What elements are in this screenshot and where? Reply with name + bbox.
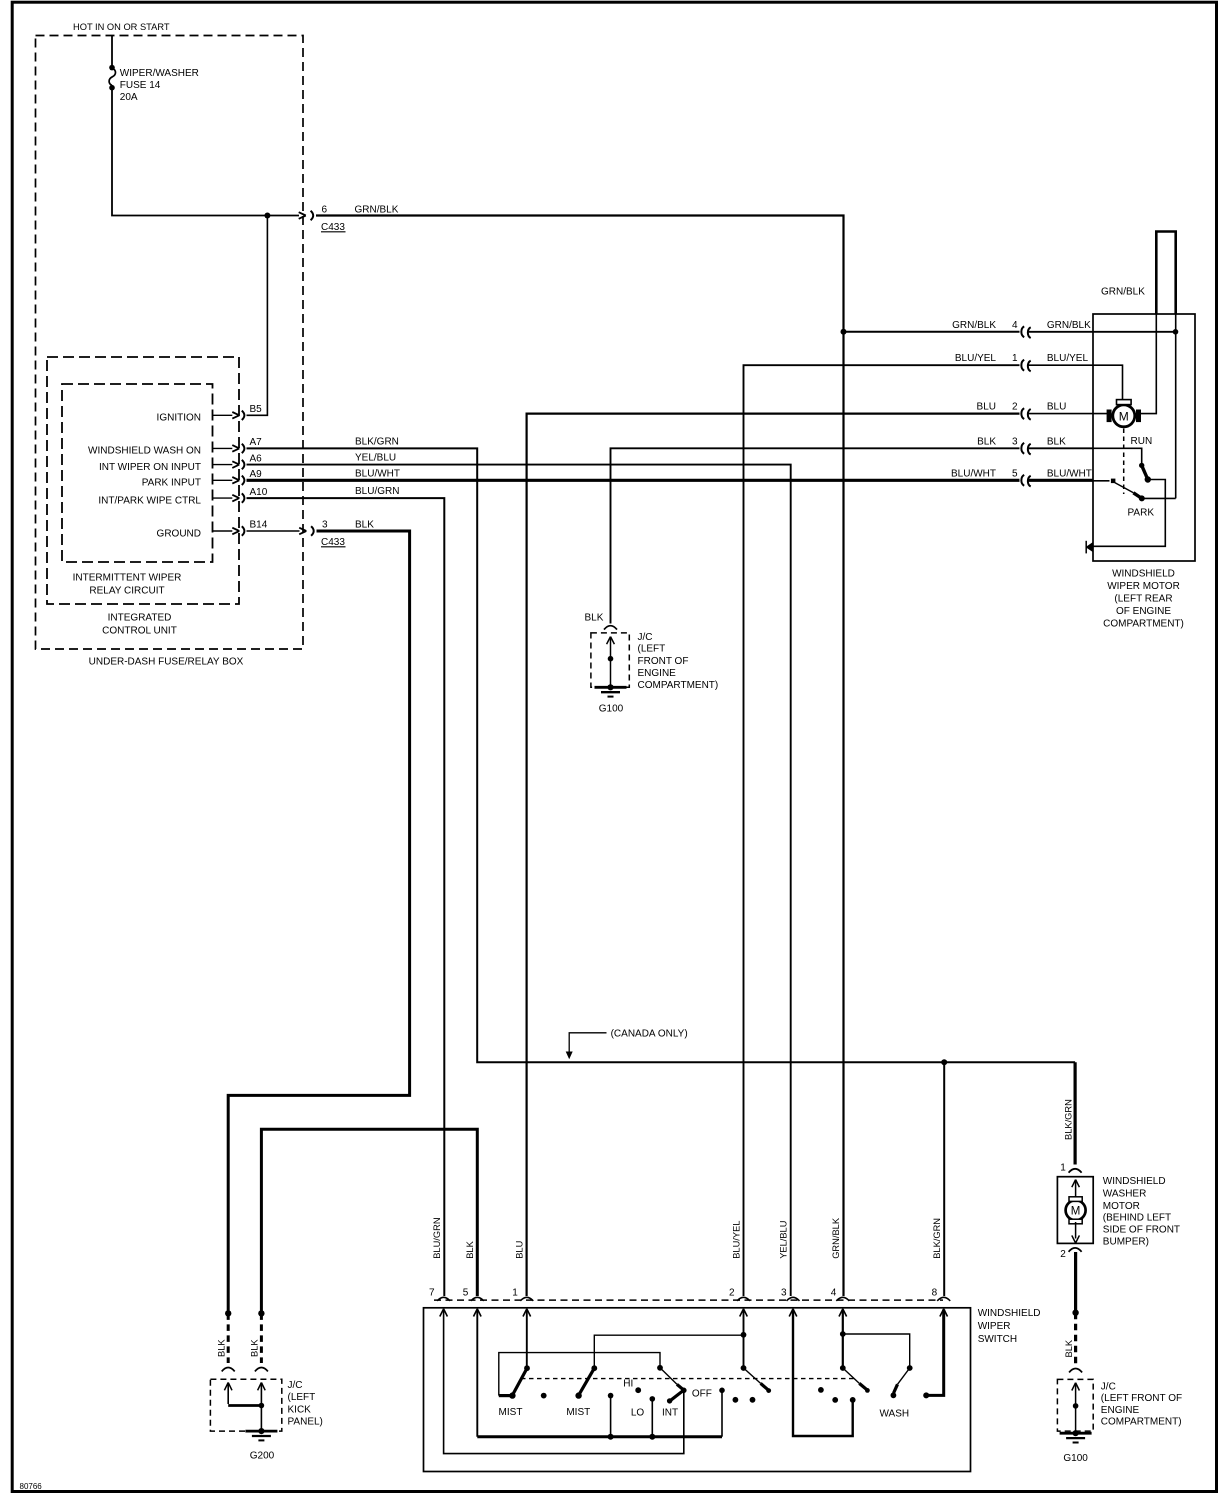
svg-text:BLU/GRN: BLU/GRN: [355, 486, 399, 497]
svg-text:A7: A7: [250, 437, 263, 448]
contact dots near pin 3: [818, 1387, 824, 1393]
svg-text:5: 5: [1012, 468, 1018, 479]
svg-text:2: 2: [1012, 402, 1018, 413]
wire BLK dashed 2 to G200 J/C: [260, 1313, 263, 1363]
wiper motor box: [1093, 314, 1195, 561]
wire pin 2 to motor: [1029, 413, 1109, 415]
svg-text:BLK: BLK: [977, 436, 996, 447]
svg-text:BLU/YEL: BLU/YEL: [731, 1221, 741, 1259]
svg-text:KICK: KICK: [288, 1404, 312, 1415]
wire GRN/BLK to wiper motor connector pin 4: [844, 331, 1020, 333]
switch SW1 windshield wiper switch box: [424, 1308, 971, 1472]
wire park contact to GRN/BLK: [1142, 497, 1176, 499]
svg-text:BLK: BLK: [1047, 436, 1066, 447]
svg-text:YEL/BLU: YEL/BLU: [779, 1221, 789, 1259]
motor M2 windshield washer motor: [1057, 1177, 1093, 1244]
integrated control unit box: [47, 357, 239, 604]
wire pin 5 ground bus: [476, 1310, 478, 1437]
svg-text:BLU/WHT: BLU/WHT: [1047, 468, 1092, 479]
switch park/run selector arm: [1111, 479, 1116, 484]
wire YEL/BLU from A6 down to switch pin 3: [247, 465, 791, 1296]
switch arm MIST 2: [591, 1365, 597, 1371]
svg-text:G200: G200: [250, 1450, 275, 1461]
switch arm 4: [741, 1365, 747, 1371]
node BLK splice to G200: [225, 1310, 231, 1316]
svg-text:2: 2: [729, 1288, 735, 1299]
svg-text:80766: 80766: [20, 1482, 43, 1491]
svg-text:2: 2: [1060, 1249, 1066, 1260]
node BLK splice washer: [1072, 1310, 1078, 1316]
svg-text:BUMPER): BUMPER): [1103, 1237, 1149, 1248]
svg-text:BLU/GRN: BLU/GRN: [432, 1217, 442, 1258]
wire BLK washer motor to G100: [1074, 1252, 1077, 1313]
svg-text:3: 3: [781, 1288, 787, 1299]
svg-text:PARK: PARK: [1128, 507, 1155, 518]
svg-text:COMPARTMENT): COMPARTMENT): [1103, 619, 1184, 630]
connector wiper motor pin 4: [1021, 326, 1030, 338]
wire BLK from wiper motor pin 3 to G100 junction: [611, 448, 1020, 623]
svg-text:OFF: OFF: [692, 1389, 712, 1400]
svg-text:4: 4: [831, 1288, 837, 1299]
svg-text:BLK/GRN: BLK/GRN: [1063, 1099, 1073, 1140]
svg-text:INTEGRATED: INTEGRATED: [108, 613, 172, 624]
junction fuse output: [264, 213, 270, 219]
svg-text:BLU/WHT: BLU/WHT: [355, 468, 400, 479]
wire pin 2 to arm 4: [743, 1310, 745, 1369]
svg-text:BLU: BLU: [515, 1241, 525, 1259]
mechanical link motor to park switch: [1123, 429, 1125, 495]
svg-text:FUSE 14: FUSE 14: [120, 80, 161, 91]
wire pin 5 to park switch arm: [1029, 479, 1094, 482]
svg-text:(LEFT: (LEFT: [288, 1392, 316, 1403]
svg-text:INT: INT: [662, 1407, 678, 1418]
connector C433 pin 6: [299, 211, 314, 220]
svg-text:OF ENGINE: OF ENGINE: [1116, 606, 1171, 617]
ground wiper motor case: [1085, 541, 1087, 554]
svg-text:SWITCH: SWITCH: [978, 1334, 1017, 1345]
svg-text:WIPER: WIPER: [978, 1321, 1011, 1332]
svg-text:IGNITION: IGNITION: [157, 413, 201, 424]
svg-text:BLK: BLK: [216, 1339, 226, 1357]
svg-text:MIST: MIST: [566, 1407, 590, 1418]
svg-text:5: 5: [463, 1288, 469, 1299]
wire pin 1 to motor winding: [1029, 365, 1123, 400]
svg-text:B5: B5: [250, 404, 263, 415]
wire B14 to C433 pin 3: [247, 530, 300, 532]
contact INT: [667, 1398, 672, 1403]
wire BLK/GRN down to switch pin 8: [943, 1062, 945, 1296]
svg-text:G100: G100: [1063, 1453, 1088, 1464]
svg-text:BLU: BLU: [1047, 402, 1066, 413]
svg-text:J/C: J/C: [288, 1380, 303, 1391]
svg-text:G100: G100: [599, 704, 624, 715]
junction GRN/BLK node: [841, 329, 847, 335]
svg-text:WASHER: WASHER: [1103, 1189, 1147, 1200]
mechanical link wiper switch arms: [521, 1378, 856, 1380]
svg-text:(LEFT REAR: (LEFT REAR: [1114, 594, 1172, 605]
ground G100: [607, 684, 613, 690]
svg-text:GRN/BLK: GRN/BLK: [355, 205, 399, 216]
switch arm WASH: [907, 1365, 913, 1371]
svg-text:20A: 20A: [120, 92, 138, 103]
wire pin 3 to run contact: [1029, 447, 1094, 449]
svg-text:INTERMITTENT WIPER: INTERMITTENT WIPER: [73, 573, 182, 584]
node wiper selector pivot: [657, 1365, 663, 1371]
wire GRN/BLK jumper loop above motor box: [1156, 232, 1175, 315]
wire BLK/GRN to washer motor pin 1: [1073, 1062, 1076, 1164]
svg-text:GRN/BLK: GRN/BLK: [952, 320, 996, 331]
node BLK splice 2 to G200: [258, 1310, 264, 1316]
svg-text:MOTOR: MOTOR: [1103, 1201, 1140, 1212]
wire BLK ground from C433 pin 3 to G200 junction: [228, 531, 409, 1313]
svg-text:GRN/BLK: GRN/BLK: [1047, 320, 1091, 331]
switch arm MIST 1: [524, 1365, 530, 1371]
svg-text:HI: HI: [623, 1379, 633, 1390]
switch arm 5: [840, 1365, 846, 1371]
wire BLU from wiper motor pin 2 down to switch pin 1: [527, 414, 1020, 1296]
svg-text:PANEL): PANEL): [288, 1417, 323, 1428]
svg-text:7: 7: [429, 1288, 435, 1299]
svg-text:6: 6: [322, 205, 328, 216]
contact OFF: [681, 1388, 687, 1394]
svg-text:BLK: BLK: [355, 520, 374, 531]
svg-text:B14: B14: [250, 520, 268, 531]
svg-text:LO: LO: [631, 1407, 645, 1418]
svg-text:BLK: BLK: [585, 613, 604, 624]
svg-text:3: 3: [322, 520, 328, 531]
contact dot left: [541, 1393, 547, 1399]
wire pin 8 to WASH contact: [926, 1310, 944, 1396]
svg-text:3: 3: [1012, 436, 1018, 447]
contact dots arm 4: [733, 1397, 739, 1403]
svg-text:BLU/WHT: BLU/WHT: [951, 468, 996, 479]
wire BLU/GRN from A10 down to switch pin 7: [247, 498, 445, 1296]
junction pin 4 to jumper: [1173, 329, 1179, 335]
svg-text:BLU: BLU: [977, 402, 996, 413]
svg-text:A6: A6: [250, 453, 263, 464]
fuse F14 WIPER/WASHER 20A: [109, 68, 115, 85]
contact PARK: [1139, 495, 1145, 501]
wire BLK dashed to G200 J/C: [227, 1313, 230, 1363]
wire pin 4 into motor: [1029, 331, 1176, 333]
svg-text:GROUND: GROUND: [157, 528, 201, 539]
svg-text:UNDER-DASH FUSE/RELAY BOX: UNDER-DASH FUSE/RELAY BOX: [89, 657, 244, 668]
svg-text:ENGINE: ENGINE: [638, 668, 677, 679]
svg-text:RUN: RUN: [1131, 436, 1153, 447]
svg-text:M: M: [1119, 409, 1129, 423]
svg-text:BLK: BLK: [465, 1240, 475, 1258]
svg-text:WINDSHIELD: WINDSHIELD: [978, 1308, 1041, 1319]
svg-text:J/C: J/C: [638, 632, 653, 643]
contact risers to ground bus: [610, 1396, 612, 1437]
svg-text:FRONT OF: FRONT OF: [638, 656, 689, 667]
svg-text:A9: A9: [250, 469, 263, 480]
ground G100 right: [1073, 1430, 1079, 1436]
junction connector J/C left front of engine compartment: [591, 633, 629, 687]
svg-text:INT WIPER ON INPUT: INT WIPER ON INPUT: [99, 462, 201, 473]
svg-text:1: 1: [1060, 1162, 1066, 1173]
svg-text:WASH: WASH: [879, 1409, 909, 1420]
ground G200: [258, 1428, 264, 1434]
svg-text:COMPARTMENT): COMPARTMENT): [1101, 1417, 1182, 1428]
connectors at G200 J/C: [222, 1368, 235, 1372]
svg-text:BLK/GRN: BLK/GRN: [932, 1218, 942, 1259]
wire BLK dashed to right G100 J/C: [1074, 1313, 1077, 1366]
svg-text:1: 1: [512, 1288, 518, 1299]
junction connector J/C left kick panel: [210, 1379, 281, 1431]
svg-text:HOT IN ON OR START: HOT IN ON OR START: [73, 22, 170, 32]
svg-text:1: 1: [1012, 353, 1018, 364]
svg-text:BLK: BLK: [250, 1339, 260, 1357]
connector wiper motor pin 5: [1021, 475, 1030, 487]
svg-text:(BEHIND LEFT: (BEHIND LEFT: [1103, 1213, 1171, 1224]
svg-text:ENGINE: ENGINE: [1101, 1405, 1140, 1416]
wire pin 7 to OFF contact: [444, 1310, 684, 1454]
connector line windshield wiper switch: [434, 1299, 943, 1301]
svg-text:GRN/BLK: GRN/BLK: [1101, 286, 1145, 297]
wire pin 3 to contact: [793, 1310, 853, 1437]
svg-text:(LEFT: (LEFT: [638, 644, 666, 655]
wire fuse to C433 pin 6: [112, 88, 299, 216]
svg-text:WIPER/WASHER: WIPER/WASHER: [120, 68, 199, 79]
svg-text:M: M: [1071, 1206, 1081, 1218]
svg-text:RELAY CIRCUIT: RELAY CIRCUIT: [89, 586, 164, 597]
svg-text:WINDSHIELD WASH ON: WINDSHIELD WASH ON: [88, 446, 201, 457]
svg-text:YEL/BLU: YEL/BLU: [355, 453, 396, 464]
svg-text:8: 8: [932, 1288, 938, 1299]
svg-text:4: 4: [1012, 320, 1018, 331]
svg-text:(LEFT FRONT OF: (LEFT FRONT OF: [1101, 1393, 1182, 1404]
wire branch down to ignition input B5: [247, 216, 268, 416]
svg-text:WINDSHIELD: WINDSHIELD: [1103, 1176, 1166, 1187]
svg-text:SIDE OF FRONT: SIDE OF FRONT: [1103, 1225, 1180, 1236]
svg-text:(CANADA ONLY): (CANADA ONLY): [611, 1028, 688, 1039]
svg-text:BLK/GRN: BLK/GRN: [355, 437, 399, 448]
connector wiper motor pin 1: [1021, 360, 1030, 372]
wire MIST contact to wiper arm pivot: [499, 1353, 660, 1396]
connector wiper motor pin 3: [1021, 443, 1030, 455]
svg-text:BLU/YEL: BLU/YEL: [955, 353, 997, 364]
wire BLU/WHT from A9 to wiper motor connector pin 5: [247, 479, 1020, 482]
connector C433 pin 3: [299, 526, 314, 535]
wire BLU/YEL from wiper motor pin 1 down to switch pin 2: [744, 365, 1020, 1296]
intermittent wiper relay circuit box: [62, 384, 213, 562]
wire BLK from switch pin 5 to G200 junction: [261, 1129, 477, 1313]
wire pin 4 to WASH arm pivot: [843, 1334, 910, 1368]
svg-text:BLK: BLK: [1064, 1339, 1074, 1357]
svg-text:BLU/YEL: BLU/YEL: [1047, 353, 1089, 364]
wire GRN/BLK power: C433 to wiper motor pin 4 and down to switch pin 4: [316, 216, 844, 1297]
motor M1 wiper motor: [1113, 405, 1135, 427]
connector at right G100 J/C: [1069, 1369, 1082, 1373]
wire BLK/GRN from A7 down and right (CANADA ONLY wire): [247, 448, 1076, 1062]
switch arm wiper selector (OFF/INT): [660, 1368, 677, 1385]
svg-text:WINDSHIELD: WINDSHIELD: [1112, 569, 1175, 580]
svg-text:WIPER MOTOR: WIPER MOTOR: [1107, 581, 1180, 592]
svg-text:INT/PARK WIPE CTRL: INT/PARK WIPE CTRL: [98, 495, 201, 506]
junction connector J/C right (left front of engine compartment): [1057, 1379, 1093, 1431]
contact RUN: [1139, 463, 1144, 468]
svg-text:COMPARTMENT): COMPARTMENT): [638, 680, 719, 691]
wire hot feed into fuse: [111, 36, 113, 66]
under-dash fuse/relay box: [36, 36, 304, 650]
svg-text:CONTROL UNIT: CONTROL UNIT: [102, 626, 177, 637]
svg-text:GRN/BLK: GRN/BLK: [831, 1217, 841, 1259]
wire MIST 2 pivot to pin 2: [594, 1335, 743, 1368]
wire pin 1 to MIST arm 1: [526, 1310, 528, 1369]
connector wiper motor pin 2: [1021, 408, 1030, 420]
wire pin 4 to arm 5: [842, 1310, 844, 1369]
svg-text:MIST: MIST: [499, 1407, 523, 1418]
svg-text:J/C: J/C: [1101, 1381, 1116, 1392]
svg-text:A10: A10: [250, 487, 268, 498]
wire run contact to motor ground: [1093, 480, 1165, 547]
junction BLK/GRN branch to switch pin 8: [941, 1059, 947, 1065]
svg-text:PARK INPUT: PARK INPUT: [142, 478, 201, 489]
connector at G100 J/C: [604, 626, 617, 630]
